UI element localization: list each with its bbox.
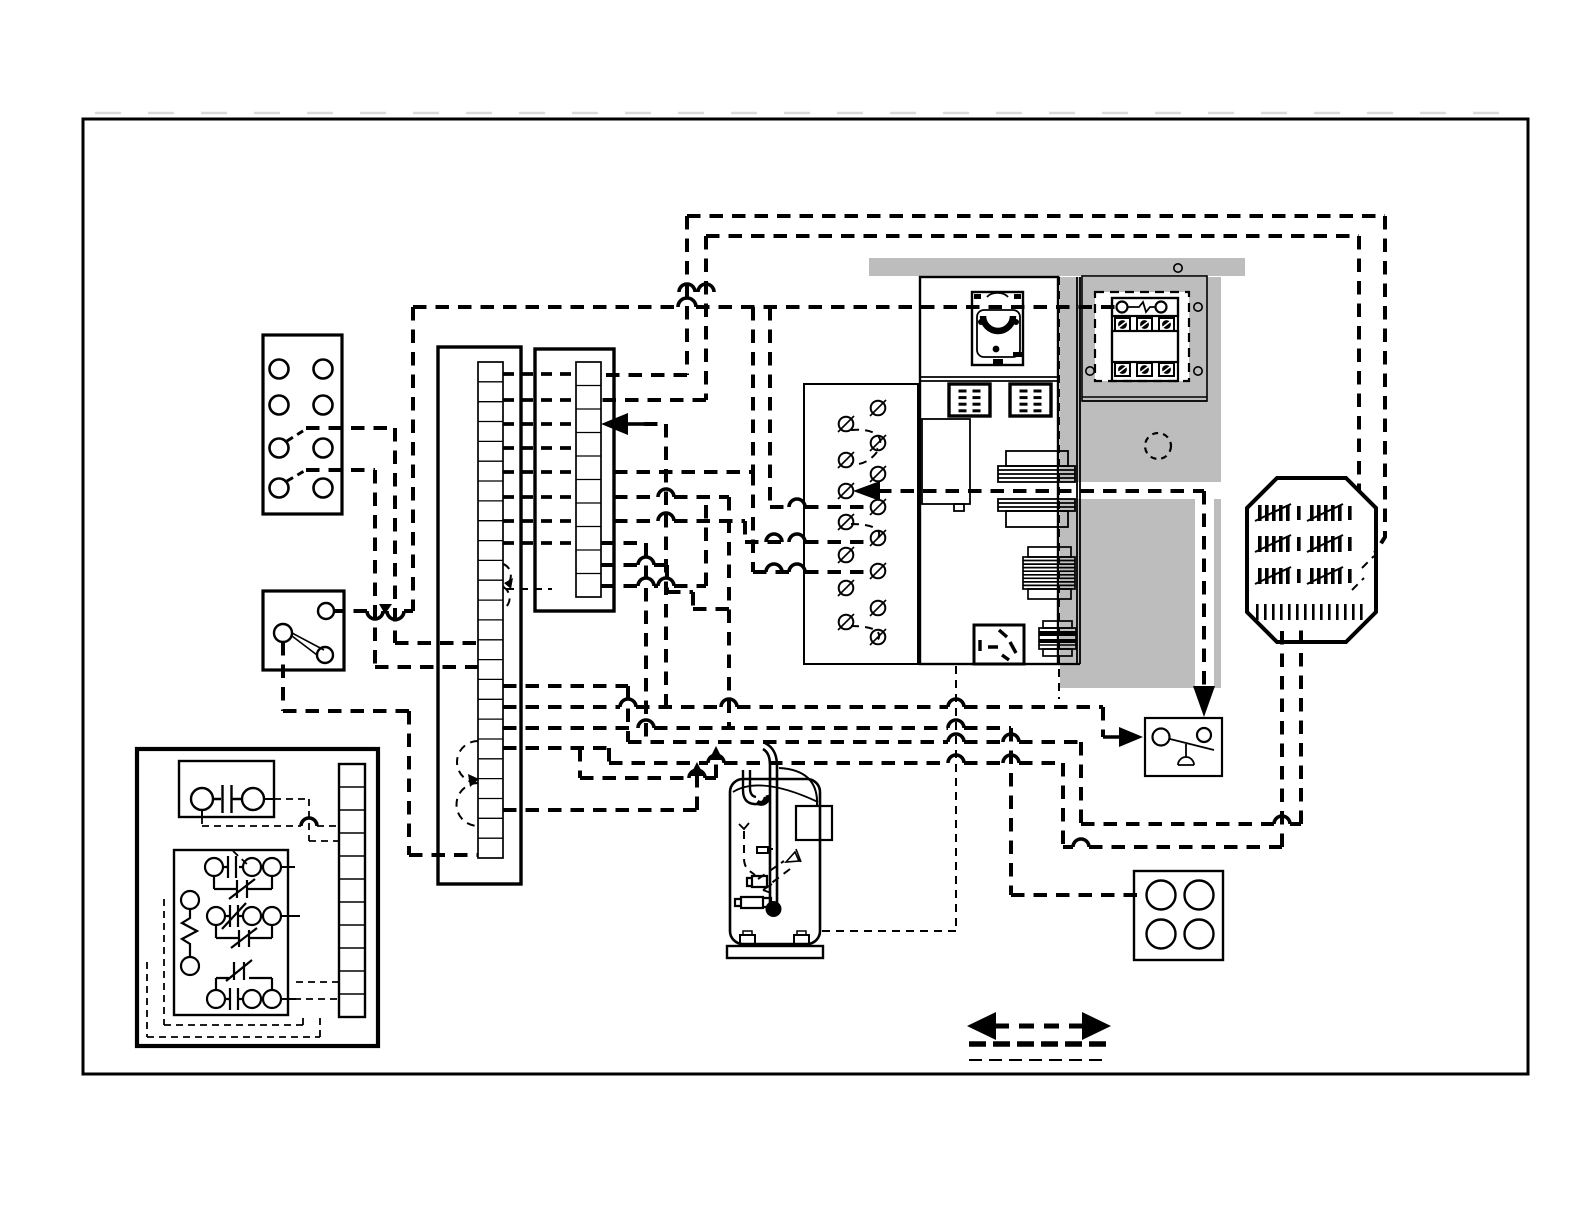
legend low volt line: [969, 1059, 1104, 1061]
compressor suction pipe: [743, 770, 765, 804]
DF1 internal wires: [202, 799, 300, 999]
wire TS2 to vertical x753: [614, 307, 753, 472]
wire TS1-TS2 row y521: [503, 519, 576, 523]
wire TS1-TS2 row y497: [503, 495, 576, 499]
hook arcs on bus verticals: [679, 284, 714, 292]
arrow wire into TS2: [601, 413, 628, 435]
unit enclosure outline: [920, 277, 1080, 664]
contactor white island: [1095, 292, 1189, 381]
legend double arrow: [967, 1012, 996, 1040]
wire TS2 y497 to bundle: [614, 497, 729, 728]
DF1 contact group g2: [207, 903, 281, 948]
octagon bottom tick row: [1256, 604, 1259, 620]
wire TS2 y565: [601, 565, 729, 609]
drill hole: [1145, 433, 1171, 459]
terminal strip TS1: [438, 347, 521, 884]
unit panel split dashed edge: [1058, 277, 1060, 699]
wire R2 TS1 to thermostat arrow: [503, 707, 1103, 737]
wire R4 TS1 to octagon: [503, 622, 1282, 847]
switch arm dashes on TB1: [287, 429, 306, 481]
terminal jumper arcs: [851, 430, 880, 464]
wire TB1 row4 to TS1: [306, 470, 478, 667]
wire R5 TS1 jumper up: [503, 772, 697, 810]
wire TB1 row3 to TS1: [306, 428, 478, 643]
gray control panel lower: [1060, 492, 1221, 688]
defrost thermostat switch box: [1145, 718, 1222, 776]
sight glass box: [974, 625, 1024, 664]
fan capacitor box: [1134, 871, 1223, 960]
junction box octagon: [1247, 478, 1376, 642]
legend field wiring line: [969, 1041, 1106, 1047]
plug connector J1: [949, 384, 990, 416]
wire bus B2 top: [706, 236, 1359, 490]
gray control panel upper: [1060, 277, 1221, 492]
DF1 sensor resistor: [181, 891, 199, 975]
wire terminal box arrow feed (to thermostat): [853, 481, 880, 501]
screw terminals column: [871, 401, 886, 416]
wire contactor feed: [413, 305, 1116, 309]
wire x753 to terminal box y572: [753, 472, 869, 572]
octagon hatch rows: [1258, 505, 1262, 521]
wire TS1-TS2 row y374: [503, 372, 576, 376]
low voltage terminal box: [804, 384, 918, 664]
wire TS1-TS2 row y400: [503, 398, 576, 402]
compressor discharge pipe: [763, 743, 817, 903]
wire bus B1 top: [687, 216, 1385, 553]
contactor mounting plate: [1082, 276, 1207, 401]
page border frame: [83, 119, 1528, 1074]
gray mounting bar: [869, 258, 1245, 276]
wire S1 to TS1 bottom: [283, 642, 478, 855]
compressor M1 body: [727, 779, 823, 958]
wire compressor dashed drop: [1058, 276, 1060, 278]
DF1 contact group g3: [207, 960, 281, 1010]
defrost control board DF1 outer: [137, 749, 378, 1046]
octagon stub wires: [1352, 556, 1374, 590]
terminal board TB1: [263, 335, 342, 514]
relay board stack B: [998, 499, 1075, 527]
wire R6 low connector: [580, 748, 716, 778]
wire TS2 to terminal box y507: [770, 307, 869, 507]
DF1 inner relay block: [174, 850, 288, 1015]
jumper arc TS1 left big: [456, 741, 478, 826]
wire TS2 y543: [601, 543, 646, 742]
contactor C1: [1112, 298, 1178, 381]
wire TS1-TS2 row y472: [503, 470, 576, 474]
DF1 relay K1 box: [179, 761, 274, 817]
DF1 terminal strip: [339, 764, 365, 1017]
wire TS1-TS2 row y543: [503, 541, 576, 545]
wire to pressure switch S1: [334, 609, 413, 613]
jumper arc TS1 right upper: [503, 564, 511, 609]
wire compressor lead vertical: [822, 666, 956, 931]
wire TS1-TS2 row y448: [503, 446, 576, 450]
compressor internal dashed leads: [744, 831, 755, 875]
compressor wire plugs: [735, 876, 771, 908]
compressor plug fitting: [757, 847, 773, 853]
white wire corridor: [1040, 482, 1222, 499]
compressor terminal box: [796, 806, 832, 840]
wire TS2 y585 to bundle: [601, 497, 706, 586]
faint scan dashed line: [95, 112, 1520, 115]
wire R3 TS1 to fan capacitor box: [503, 728, 1140, 895]
wire TS1-TS2 row y424: [503, 422, 576, 426]
economizer bracket: [922, 419, 970, 511]
condenser fan motor: [972, 292, 1023, 365]
DF1 contact group g1: [205, 856, 281, 899]
relay board stack A: [998, 451, 1075, 482]
plate screws: [1174, 264, 1182, 272]
transformer T1 heatsink: [1023, 547, 1075, 599]
wire R1 TS1 to octagon: [503, 686, 628, 742]
terminal strip TS2: [535, 349, 614, 611]
pressure switch S1: [263, 591, 344, 670]
transformer T2 heatsink: [1039, 621, 1076, 656]
plug connector J2: [1010, 384, 1051, 416]
wire TS2 y521 to terminal box y542: [614, 521, 869, 542]
